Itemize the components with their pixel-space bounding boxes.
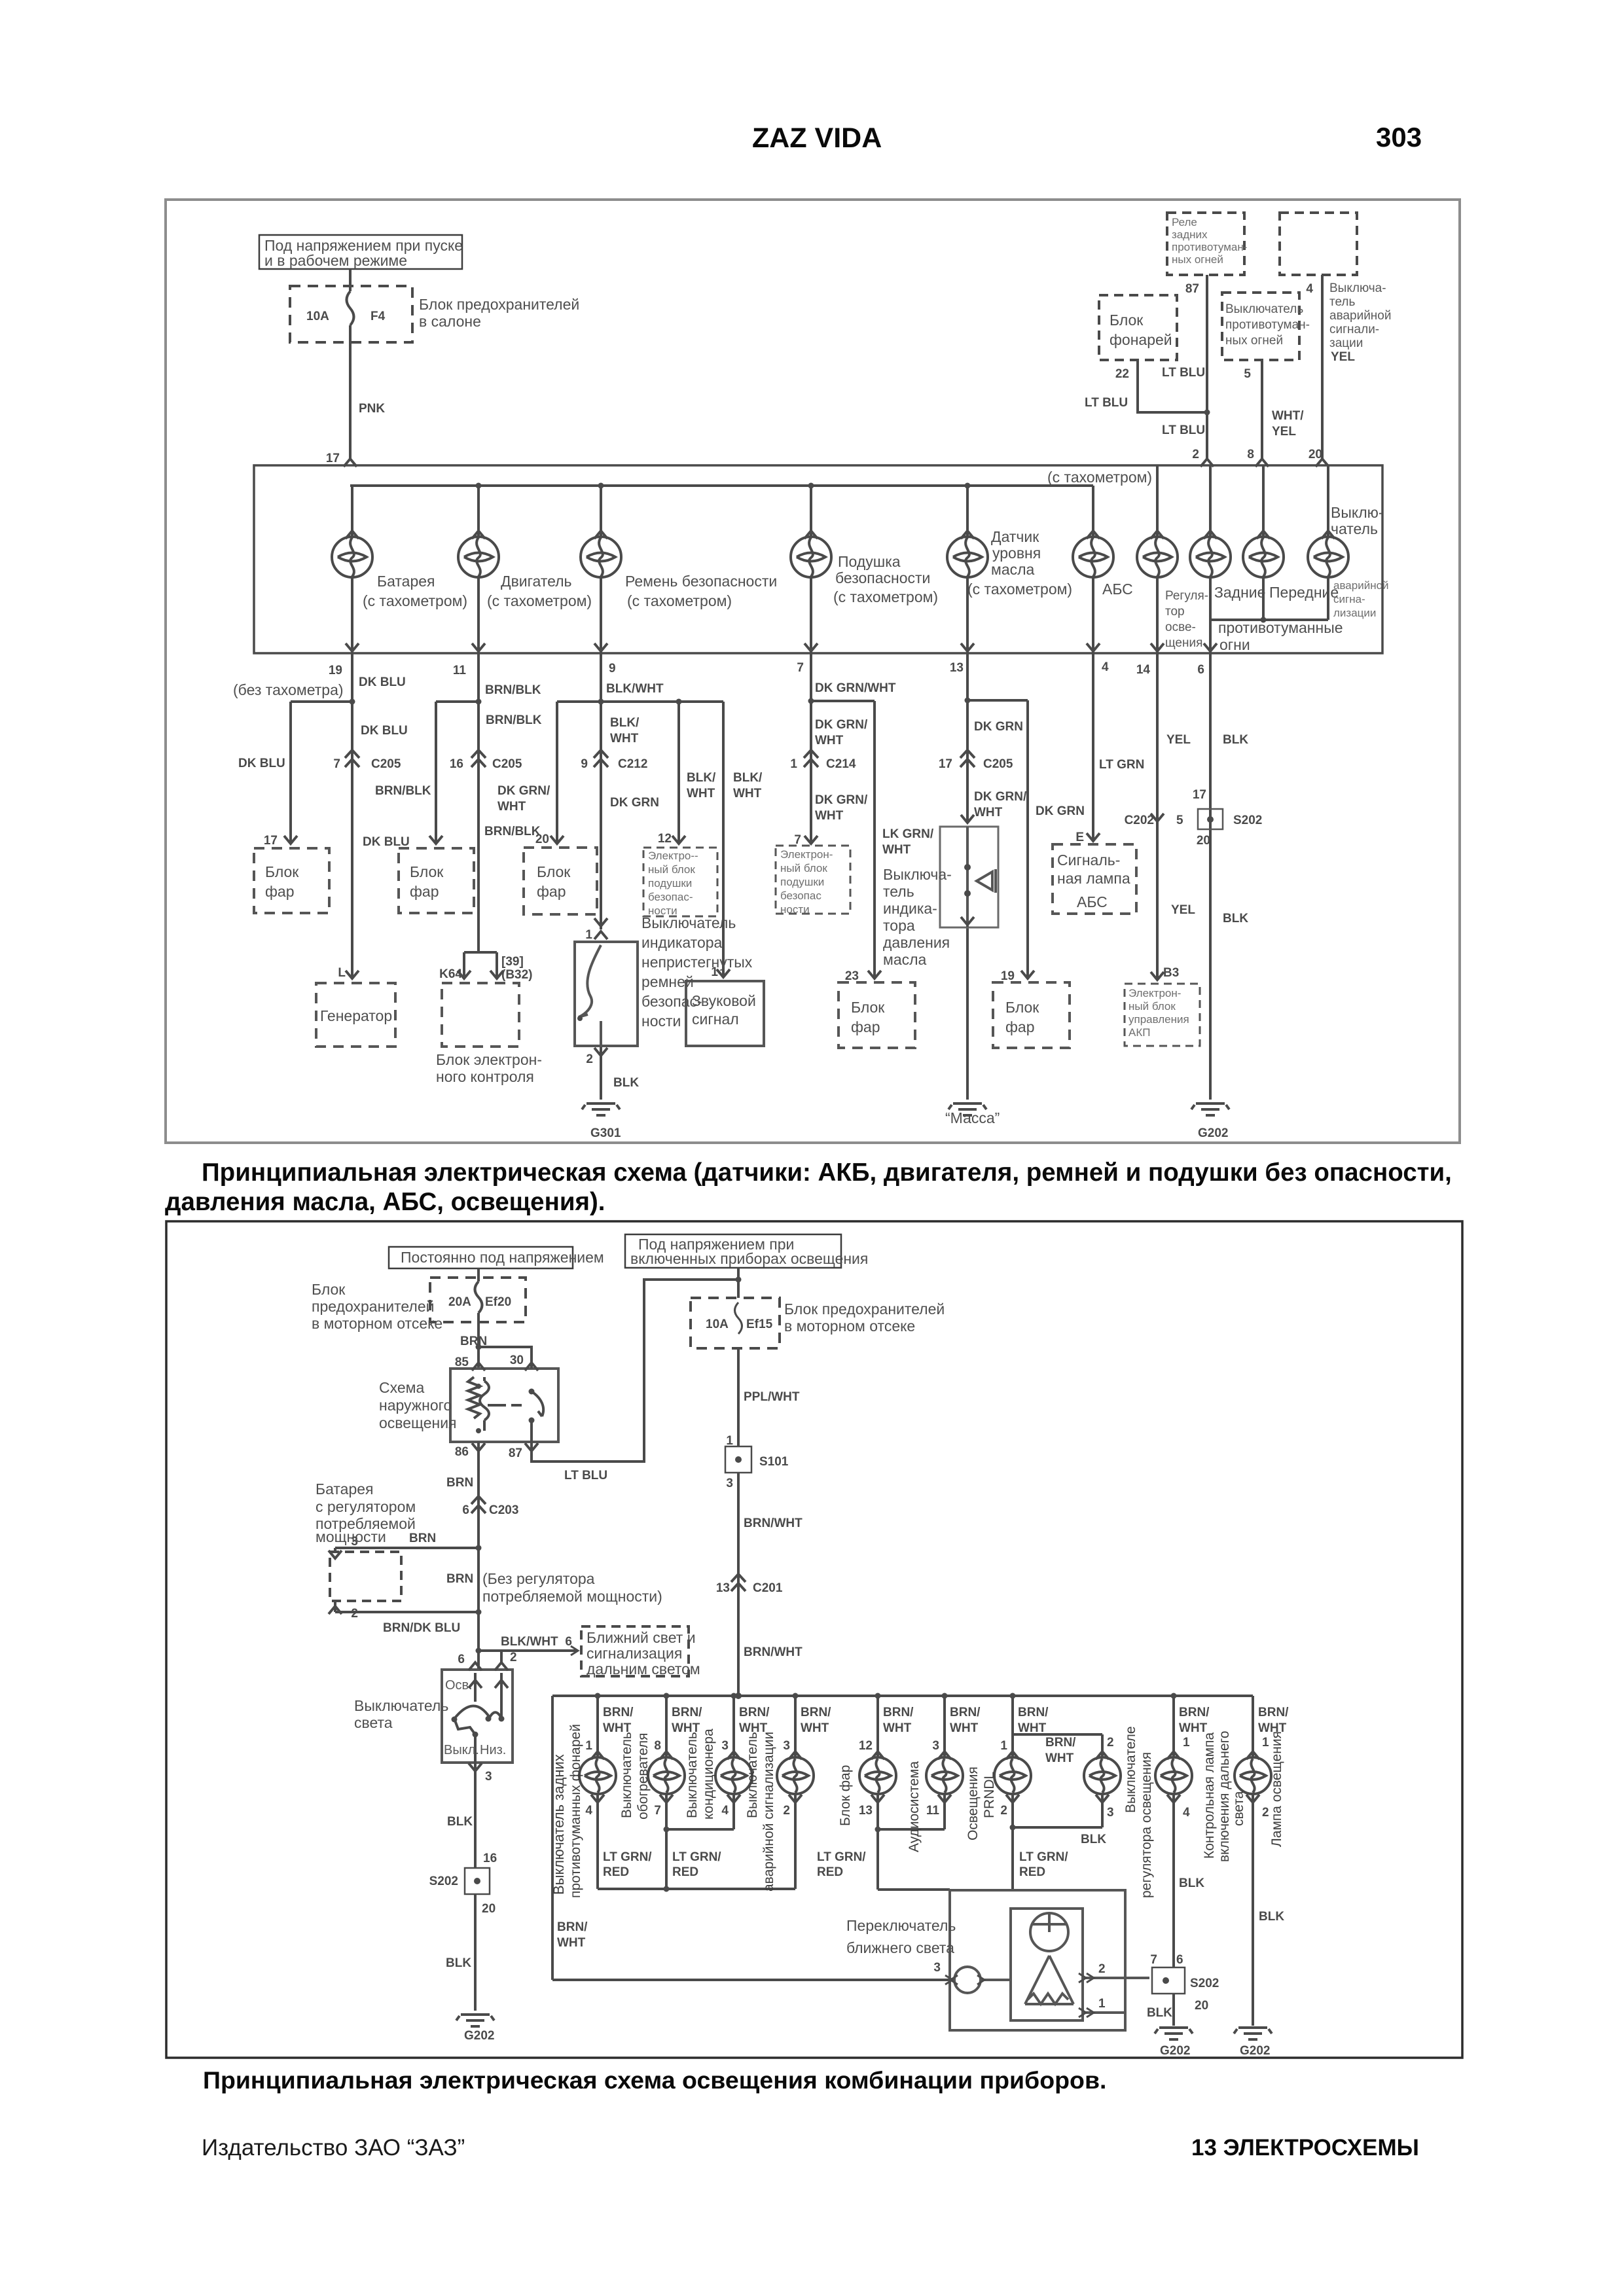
svg-text:7: 7: [333, 757, 340, 771]
svg-text:6: 6: [1197, 663, 1204, 677]
svg-text:Ближний свет и: Ближний свет и: [586, 1629, 696, 1646]
svg-text:Выключа-: Выключа-: [1329, 281, 1386, 295]
svg-text:уровня: уровня: [992, 545, 1041, 562]
svg-text:BRN/WHT: BRN/WHT: [744, 1516, 803, 1530]
svg-text:сигна-: сигна-: [1333, 593, 1365, 605]
svg-text:BLK/: BLK/: [733, 771, 763, 785]
svg-text:(Без регулятора: (Без регулятора: [482, 1570, 595, 1587]
svg-text:YEL: YEL: [1166, 733, 1191, 747]
svg-text:17: 17: [326, 452, 340, 465]
svg-text:тора: тора: [883, 917, 915, 934]
svg-text:BLK: BLK: [1223, 733, 1248, 747]
svg-text:осве-: осве-: [1165, 620, 1196, 634]
svg-text:BLK: BLK: [446, 1956, 471, 1970]
svg-text:BLK: BLK: [1147, 2006, 1172, 2020]
svg-text:обогревателя: обогревателя: [636, 1732, 651, 1820]
svg-text:в моторном отсеке: в моторном отсеке: [784, 1318, 915, 1335]
svg-text:DK GRN/: DK GRN/: [497, 784, 550, 798]
svg-text:BRN/: BRN/: [801, 1706, 831, 1719]
svg-text:DK GRN/: DK GRN/: [974, 790, 1027, 804]
svg-text:BRN/: BRN/: [1179, 1706, 1210, 1719]
svg-text:BRN/DK BLU: BRN/DK BLU: [383, 1621, 460, 1635]
svg-text:5: 5: [1244, 367, 1251, 381]
svg-text:и в рабочем режиме: и в рабочем режиме: [264, 252, 407, 269]
svg-text:LT GRN/: LT GRN/: [817, 1850, 866, 1864]
svg-text:(B32): (B32): [501, 968, 533, 982]
svg-text:BRN/: BRN/: [557, 1920, 588, 1934]
svg-text:G202: G202: [1240, 2044, 1270, 2058]
svg-text:сигнал: сигнал: [692, 1011, 739, 1028]
svg-text:2: 2: [1000, 1804, 1007, 1818]
svg-text:DK BLU: DK BLU: [363, 835, 410, 849]
svg-text:9: 9: [609, 662, 616, 675]
svg-text:Батарея: Батарея: [316, 1480, 374, 1498]
svg-text:4: 4: [721, 1804, 729, 1818]
svg-text:масла: масла: [991, 561, 1035, 578]
svg-text:Блок фар: Блок фар: [838, 1765, 853, 1826]
svg-text:3: 3: [721, 1739, 729, 1753]
svg-text:BRN/: BRN/: [1045, 1736, 1076, 1749]
svg-text:Выключатель: Выключатель: [745, 1732, 760, 1818]
svg-text:2: 2: [1262, 1806, 1269, 1820]
svg-text:BRN/: BRN/: [672, 1706, 702, 1719]
svg-text:BRN/WHT: BRN/WHT: [744, 1645, 803, 1659]
svg-text:2: 2: [1098, 1962, 1106, 1976]
svg-text:ный блок: ный блок: [648, 863, 695, 876]
svg-text:освещения: освещения: [379, 1414, 457, 1431]
svg-text:16: 16: [483, 1852, 497, 1865]
svg-text:предохранителей: предохранителей: [312, 1298, 434, 1315]
svg-text:BLK: BLK: [1223, 912, 1248, 925]
svg-text:LK GRN/: LK GRN/: [882, 827, 934, 841]
svg-text:4: 4: [1306, 282, 1313, 296]
svg-text:C201: C201: [753, 1581, 783, 1595]
svg-text:BLK/: BLK/: [687, 771, 716, 785]
svg-text:K64: K64: [439, 967, 462, 981]
svg-text:(без тахометра): (без тахометра): [233, 681, 344, 698]
svg-text:17: 17: [939, 757, 952, 771]
svg-text:LT GRN: LT GRN: [1099, 758, 1144, 772]
svg-text:Выключатель: Выключатель: [685, 1732, 700, 1818]
svg-text:непристегнутых: непристегнутых: [641, 954, 753, 971]
svg-text:Переключатель: Переключатель: [846, 1917, 956, 1934]
svg-text:(с тахометром): (с тахометром): [967, 581, 1072, 598]
svg-text:WHT: WHT: [1045, 1751, 1074, 1765]
svg-text:S202: S202: [429, 1874, 458, 1888]
svg-text:индика-: индика-: [883, 900, 937, 917]
svg-text:ности: ности: [641, 1013, 681, 1030]
svg-text:11: 11: [926, 1804, 940, 1818]
svg-text:Задние: Задние: [1214, 584, 1265, 601]
svg-text:Контрольная лампа: Контрольная лампа: [1202, 1732, 1217, 1859]
svg-text:6: 6: [1176, 1953, 1183, 1967]
svg-text:Низ.: Низ.: [480, 1743, 506, 1757]
svg-text:DK GRN/: DK GRN/: [815, 793, 868, 807]
svg-text:Блок: Блок: [537, 863, 571, 880]
svg-text:20: 20: [482, 1902, 496, 1916]
svg-text:BRN: BRN: [460, 1335, 487, 1348]
svg-text:управления: управления: [1128, 1013, 1189, 1026]
svg-text:противотуманные: противотуманные: [1218, 619, 1343, 636]
svg-text:аварийной: аварийной: [1333, 579, 1389, 592]
svg-text:Блок предохранителей: Блок предохранителей: [784, 1300, 945, 1318]
svg-text:1: 1: [1262, 1736, 1269, 1749]
svg-text:10A: 10A: [306, 310, 329, 323]
svg-text:зации: зации: [1329, 336, 1363, 350]
svg-text:BLK: BLK: [613, 1076, 639, 1090]
svg-text:20: 20: [535, 833, 549, 846]
svg-text:WHT: WHT: [610, 732, 639, 745]
svg-text:14: 14: [1136, 663, 1151, 677]
svg-text:10A: 10A: [706, 1318, 729, 1331]
svg-text:YEL: YEL: [1272, 425, 1296, 439]
svg-text:12: 12: [859, 1739, 873, 1753]
svg-text:противотуман-: противотуман-: [1172, 241, 1247, 253]
svg-text:3: 3: [485, 1770, 492, 1784]
svg-text:LT BLU: LT BLU: [1085, 396, 1128, 410]
svg-text:PRNDL: PRNDL: [982, 1772, 997, 1818]
svg-text:ремней: ремней: [641, 973, 694, 990]
svg-text:6: 6: [462, 1503, 469, 1517]
svg-text:7: 7: [794, 833, 801, 847]
svg-text:Подушка: Подушка: [838, 553, 901, 570]
svg-text:противотуман-: противотуман-: [1225, 318, 1310, 332]
svg-text:PPL/WHT: PPL/WHT: [744, 1390, 800, 1404]
svg-text:наружного: наружного: [379, 1397, 452, 1414]
svg-text:света: света: [1231, 1791, 1246, 1826]
svg-text:Блок: Блок: [312, 1281, 346, 1298]
svg-text:ный блок: ный блок: [1128, 1000, 1176, 1013]
svg-text:YEL: YEL: [1171, 903, 1195, 917]
svg-text:4: 4: [585, 1804, 592, 1818]
svg-text:WHT: WHT: [497, 800, 526, 814]
svg-text:87: 87: [1185, 282, 1199, 296]
svg-text:Блок: Блок: [1110, 312, 1144, 329]
svg-text:RED: RED: [603, 1865, 629, 1879]
svg-text:LT BLU: LT BLU: [1162, 366, 1205, 380]
svg-text:щения: щения: [1165, 636, 1202, 650]
svg-text:6: 6: [458, 1653, 465, 1666]
svg-text:C205: C205: [492, 757, 522, 771]
svg-text:11: 11: [453, 664, 467, 677]
svg-text:(с тахометром): (с тахометром): [363, 592, 467, 609]
svg-text:WHT/: WHT/: [1272, 409, 1304, 423]
svg-text:C203: C203: [489, 1503, 518, 1517]
svg-text:Блок предохранителей: Блок предохранителей: [419, 296, 579, 313]
svg-text:87: 87: [509, 1446, 522, 1460]
svg-text:сигнали-: сигнали-: [1329, 323, 1379, 336]
svg-text:WHT: WHT: [733, 787, 762, 800]
svg-text:DK BLU: DK BLU: [361, 724, 408, 738]
svg-text:13: 13: [716, 1581, 730, 1595]
svg-text:4: 4: [1183, 1806, 1190, 1820]
svg-text:включения дальнего: включения дальнего: [1217, 1731, 1232, 1862]
svg-text:1: 1: [711, 965, 718, 979]
svg-text:Выключа-: Выключа-: [883, 866, 952, 883]
svg-text:Схема: Схема: [379, 1379, 424, 1396]
svg-text:тор: тор: [1165, 605, 1185, 619]
svg-text:S202: S202: [1190, 1977, 1219, 1990]
svg-text:противотуманных фонарей: противотуманных фонарей: [568, 1724, 583, 1898]
svg-text:BRN: BRN: [446, 1476, 473, 1490]
svg-text:WHT: WHT: [557, 1936, 586, 1950]
svg-text:2: 2: [783, 1804, 790, 1818]
svg-text:1: 1: [1098, 1997, 1106, 2011]
svg-text:3: 3: [351, 1535, 358, 1549]
svg-text:АБС: АБС: [1102, 581, 1133, 598]
svg-text:Электрон-: Электрон-: [1128, 987, 1181, 999]
svg-text:Лампа освещения: Лампа освещения: [1269, 1731, 1284, 1847]
svg-text:безопас-: безопас-: [648, 891, 693, 903]
svg-text:Выключателе: Выключателе: [1123, 1726, 1138, 1813]
svg-text:Осв.: Осв.: [445, 1678, 473, 1693]
svg-text:DK BLU: DK BLU: [359, 675, 406, 689]
svg-text:3: 3: [726, 1477, 733, 1490]
svg-text:Двигатель: Двигатель: [501, 573, 572, 590]
svg-text:BLK: BLK: [1081, 1833, 1106, 1846]
svg-text:света: света: [354, 1714, 393, 1731]
svg-text:LT BLU: LT BLU: [564, 1469, 607, 1482]
svg-text:лизации: лизации: [1333, 607, 1376, 619]
svg-text:тель: тель: [1329, 295, 1356, 309]
svg-text:WHT: WHT: [882, 843, 911, 857]
svg-text:Передние: Передние: [1269, 584, 1339, 601]
svg-text:BLK: BLK: [1179, 1876, 1204, 1890]
svg-text:LT GRN/: LT GRN/: [1019, 1850, 1068, 1864]
svg-text:LT GRN/: LT GRN/: [672, 1850, 721, 1864]
svg-text:Выкл.: Выкл.: [444, 1743, 479, 1757]
svg-text:86: 86: [455, 1445, 469, 1459]
svg-text:G202: G202: [464, 2029, 494, 2043]
svg-text:Сигналь-: Сигналь-: [1057, 852, 1120, 869]
svg-text:BLK/WHT: BLK/WHT: [501, 1635, 558, 1649]
svg-text:Выключатель: Выключатель: [1225, 302, 1303, 316]
svg-text:8: 8: [654, 1739, 661, 1753]
svg-text:Блок электрон-: Блок электрон-: [436, 1051, 542, 1068]
svg-text:в моторном отсеке: в моторном отсеке: [312, 1315, 442, 1332]
svg-text:Выключатель: Выключатель: [641, 914, 736, 931]
svg-text:2: 2: [1107, 1736, 1114, 1749]
svg-text:DK GRN: DK GRN: [1036, 804, 1085, 818]
svg-text:масла: масла: [883, 951, 927, 968]
svg-text:PNK: PNK: [359, 402, 385, 416]
svg-text:Батарея: Батарея: [377, 573, 435, 590]
svg-text:[39]: [39]: [501, 955, 524, 969]
svg-text:DK GRN: DK GRN: [610, 796, 659, 810]
svg-text:BLK: BLK: [447, 1815, 473, 1829]
svg-text:ближнего света: ближнего света: [846, 1939, 954, 1956]
svg-text:L: L: [338, 966, 346, 980]
svg-text:19: 19: [1001, 969, 1015, 983]
svg-text:(с тахометром): (с тахометром): [627, 592, 732, 609]
svg-text:фар: фар: [410, 883, 439, 900]
svg-text:АКП: АКП: [1128, 1026, 1150, 1039]
svg-text:WHT: WHT: [687, 787, 715, 800]
svg-text:BRN/: BRN/: [603, 1706, 634, 1719]
svg-text:Регуля-: Регуля-: [1165, 589, 1208, 603]
svg-text:ного контроля: ного контроля: [436, 1068, 534, 1085]
svg-text:BRN: BRN: [409, 1532, 436, 1545]
svg-text:WHT: WHT: [950, 1721, 979, 1735]
svg-text:Датчик: Датчик: [991, 528, 1039, 545]
svg-text:давления: давления: [883, 934, 950, 951]
svg-text:20: 20: [1195, 1999, 1208, 2013]
svg-text:S101: S101: [759, 1455, 789, 1469]
svg-text:чатель: чатель: [1331, 520, 1378, 537]
svg-text:WHT: WHT: [974, 806, 1003, 819]
svg-text:ных огней: ных огней: [1225, 334, 1283, 348]
svg-text:задних: задних: [1172, 228, 1208, 241]
svg-text:(с тахометром): (с тахометром): [487, 592, 592, 609]
svg-text:2: 2: [510, 1651, 517, 1664]
svg-text:B3: B3: [1163, 966, 1179, 980]
svg-text:C205: C205: [371, 757, 401, 771]
svg-text:DK GRN: DK GRN: [974, 720, 1023, 734]
svg-text:тель: тель: [883, 883, 914, 900]
svg-text:1: 1: [585, 928, 592, 942]
svg-text:8: 8: [1247, 448, 1254, 461]
svg-text:BRN/BLK: BRN/BLK: [375, 784, 431, 798]
svg-text:DK GRN/: DK GRN/: [815, 718, 868, 732]
svg-text:Электрон-: Электрон-: [780, 848, 833, 861]
svg-text:BRN/: BRN/: [739, 1706, 770, 1719]
svg-text:13: 13: [859, 1804, 873, 1818]
svg-text:фар: фар: [265, 883, 295, 900]
svg-text:BLK: BLK: [1259, 1910, 1284, 1924]
svg-text:20: 20: [1197, 834, 1210, 848]
svg-text:BLK/: BLK/: [610, 716, 640, 730]
svg-text:WHT: WHT: [883, 1721, 912, 1735]
svg-text:BRN: BRN: [446, 1572, 473, 1586]
svg-text:Блок: Блок: [265, 863, 299, 880]
svg-text:(с тахометром): (с тахометром): [833, 588, 938, 605]
svg-text:кондиционера: кондиционера: [701, 1729, 716, 1820]
svg-text:Выключатель задних: Выключатель задних: [550, 1754, 567, 1895]
svg-text:DK BLU: DK BLU: [238, 757, 285, 770]
svg-text:4: 4: [1102, 660, 1109, 674]
svg-text:фар: фар: [1005, 1018, 1035, 1035]
svg-text:Блок: Блок: [851, 999, 885, 1016]
svg-text:BRN/BLK: BRN/BLK: [486, 713, 542, 727]
svg-text:3: 3: [933, 1961, 941, 1975]
svg-text:17: 17: [1193, 788, 1206, 802]
svg-text:Ремень безопасности: Ремень безопасности: [625, 573, 777, 590]
svg-text:23: 23: [845, 969, 859, 983]
svg-text:3: 3: [932, 1739, 939, 1753]
svg-text:Реле: Реле: [1172, 216, 1197, 228]
svg-text:АБС: АБС: [1077, 893, 1108, 910]
svg-text:5: 5: [1176, 814, 1183, 827]
svg-text:ный блок: ный блок: [780, 862, 827, 874]
svg-text:WHT: WHT: [801, 1721, 829, 1735]
svg-text:85: 85: [455, 1355, 469, 1369]
svg-text:1: 1: [726, 1434, 733, 1448]
svg-text:с регулятором: с регулятором: [316, 1498, 416, 1515]
svg-text:ности: ности: [780, 903, 810, 916]
svg-text:дальним светом: дальним светом: [586, 1660, 700, 1677]
svg-text:C212: C212: [618, 757, 647, 771]
svg-text:включенных приборах освещения: включенных приборах освещения: [630, 1250, 868, 1267]
svg-text:безопасности: безопасности: [835, 569, 930, 586]
svg-text:в салоне: в салоне: [419, 313, 481, 330]
svg-text:16: 16: [450, 757, 463, 771]
svg-text:30: 30: [510, 1354, 524, 1367]
svg-text:BRN/: BRN/: [950, 1706, 981, 1719]
svg-text:Выключатель: Выключатель: [354, 1697, 448, 1714]
svg-text:RED: RED: [672, 1865, 698, 1879]
svg-text:1: 1: [790, 757, 797, 771]
svg-text:Звуковой: Звуковой: [692, 992, 756, 1009]
svg-text:C202: C202: [1125, 814, 1154, 827]
svg-text:аварийной: аварийной: [1329, 309, 1391, 323]
svg-text:BRN/: BRN/: [1018, 1706, 1049, 1719]
svg-text:BRN/BLK: BRN/BLK: [484, 825, 541, 838]
svg-text:LT GRN/: LT GRN/: [603, 1850, 652, 1864]
svg-text:Ef20: Ef20: [485, 1295, 511, 1309]
svg-text:RED: RED: [817, 1865, 843, 1879]
svg-text:(с тахометром): (с тахометром): [1047, 469, 1152, 486]
svg-text:19: 19: [329, 664, 342, 677]
svg-text:7: 7: [1150, 1953, 1157, 1967]
svg-text:WHT: WHT: [1018, 1721, 1047, 1735]
svg-text:потребляемой мощности): потребляемой мощности): [482, 1588, 662, 1605]
svg-text:фар: фар: [851, 1018, 880, 1035]
svg-text:YEL: YEL: [1331, 350, 1355, 364]
svg-text:BRN/BLK: BRN/BLK: [485, 683, 541, 697]
svg-text:WHT: WHT: [815, 734, 844, 747]
svg-text:22: 22: [1115, 367, 1129, 381]
svg-text:RED: RED: [1019, 1865, 1045, 1879]
svg-text:C214: C214: [826, 757, 856, 771]
svg-text:G202: G202: [1160, 2044, 1190, 2058]
svg-text:12: 12: [658, 832, 672, 846]
svg-text:C205: C205: [983, 757, 1013, 771]
svg-text:WHT: WHT: [815, 809, 844, 823]
svg-text:G301: G301: [590, 1126, 621, 1140]
svg-text:сигнализация: сигнализация: [586, 1645, 682, 1662]
svg-text:аварийной сигнализации: аварийной сигнализации: [761, 1732, 776, 1892]
svg-text:7: 7: [654, 1804, 661, 1818]
svg-text:13: 13: [950, 661, 964, 675]
svg-text:2: 2: [351, 1607, 358, 1621]
svg-text:E: E: [1075, 831, 1084, 844]
svg-text:Электро--: Электро--: [648, 850, 698, 862]
svg-text:“Масса”: “Масса”: [945, 1109, 1000, 1126]
svg-text:Блок: Блок: [1005, 999, 1039, 1016]
svg-text:регулятора освещения: регулятора освещения: [1139, 1752, 1154, 1898]
svg-text:DK GRN/WHT: DK GRN/WHT: [815, 681, 896, 695]
svg-text:Блок: Блок: [410, 863, 444, 880]
svg-text:G202: G202: [1198, 1126, 1228, 1140]
svg-text:17: 17: [264, 834, 278, 848]
svg-text:огни: огни: [1219, 636, 1250, 653]
svg-text:S202: S202: [1233, 814, 1262, 827]
svg-text:BRN/: BRN/: [883, 1706, 914, 1719]
svg-text:1: 1: [1183, 1736, 1190, 1749]
svg-text:BLK/WHT: BLK/WHT: [606, 682, 664, 696]
svg-text:индикатора: индикатора: [641, 934, 723, 951]
svg-text:подушки: подушки: [648, 877, 692, 889]
svg-text:фонарей: фонарей: [1110, 331, 1172, 348]
svg-text:1: 1: [585, 1739, 592, 1753]
svg-text:Ef15: Ef15: [746, 1318, 773, 1331]
svg-text:ных огней: ных огней: [1172, 253, 1223, 266]
svg-text:Постоянно под напряжением: Постоянно под напряжением: [401, 1249, 604, 1266]
svg-text:подушки: подушки: [780, 876, 824, 888]
svg-text:Выклю-: Выклю-: [1331, 504, 1384, 521]
svg-text:LT BLU: LT BLU: [1162, 423, 1205, 437]
svg-text:Выключатель: Выключатель: [619, 1732, 634, 1818]
